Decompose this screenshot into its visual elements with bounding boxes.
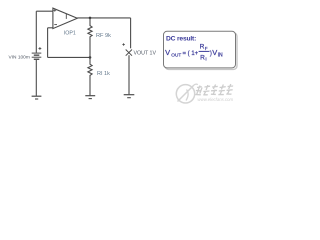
svg-text:VOUT: VOUT: [134, 51, 149, 57]
op-amp minus input mark: [54, 24, 57, 26]
ground (under probe): [124, 95, 135, 98]
DC result box shadow: [165, 33, 237, 70]
watermark logo circle: [176, 84, 198, 103]
svg-text:OUT: OUT: [171, 53, 181, 58]
svg-text:1V: 1V: [150, 51, 157, 57]
node: output junction dot: [89, 17, 92, 20]
wire: VIN source bottom vertical to ground: [35, 60, 37, 96]
svg-text:I: I: [205, 57, 206, 62]
ground (under RI): [85, 96, 95, 99]
svg-text:IN: IN: [218, 53, 223, 59]
svg-text:www.elecfans.com: www.elecfans.com: [198, 97, 234, 102]
svg-text:V: V: [165, 48, 170, 57]
resistor RI (vertical zigzag): [88, 57, 92, 95]
op-amp plus input mark: [53, 9, 56, 12]
svg-text:RI 1k: RI 1k: [97, 71, 110, 77]
probe VOUT X symbol: [126, 50, 132, 56]
plus sign at VIN source: [39, 47, 42, 50]
watermark chinese characters: [195, 84, 234, 95]
node: feedback junction dot: [89, 56, 92, 59]
svg-text:DC result:: DC result:: [166, 36, 196, 43]
wire: feedback bottom horizontal: [48, 56, 90, 58]
op-amp U1 triangle: [53, 8, 77, 29]
svg-text:= ( 1+: = ( 1+: [183, 51, 199, 57]
wire: output right vertical down to probe: [130, 18, 132, 48]
probe plus sign: [122, 43, 124, 45]
svg-text:F: F: [205, 46, 208, 51]
svg-text:IOP1: IOP1: [64, 31, 76, 37]
ground (under VIN): [32, 96, 42, 99]
resistor RF (vertical zigzag): [88, 18, 92, 58]
wire: inverting input stub: [48, 27, 53, 29]
wire: feedback left vertical: [47, 28, 49, 58]
svg-text:VIN 100m: VIN 100m: [9, 55, 30, 61]
DC result box: [164, 31, 236, 68]
svg-text:V: V: [212, 48, 217, 57]
op-amp internal mark 1: [65, 14, 67, 19]
wire: probe to ground vertical: [128, 55, 130, 94]
svg-text:R: R: [200, 54, 205, 61]
wire: VIN source top vertical: [35, 11, 37, 53]
svg-text:RF 9k: RF 9k: [96, 33, 111, 39]
wire: op-amp output horizontal: [77, 17, 130, 19]
formula VOUT = (1 + RF/RI) VIN: [165, 43, 223, 61]
voltage source VIN (battery symbol): [32, 53, 42, 60]
wire: top horizontal to op-amp + input: [36, 10, 53, 12]
